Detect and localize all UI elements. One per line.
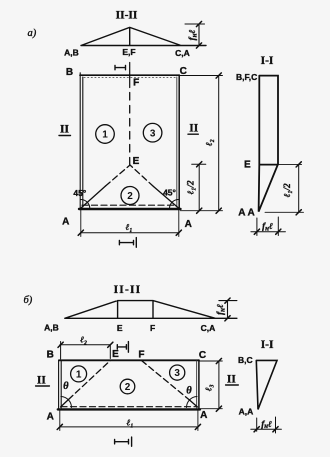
dimension f_n*l below section a [251, 217, 286, 236]
svg-text:A,A: A,A [239, 407, 254, 417]
svg-text:ℓ₂: ℓ₂ [204, 139, 214, 146]
axis mark (top, fig b) [117, 342, 128, 353]
region circle 1 (fig b) [71, 366, 87, 382]
svg-text:II: II [37, 374, 46, 386]
svg-text:A,B: A,B [44, 323, 59, 333]
svg-text:θ: θ [186, 385, 192, 396]
yield line E-A left: solid near corner then dashed [81, 186, 106, 208]
plate b: bottom edge [58, 408, 200, 410]
svg-text:E: E [112, 349, 119, 360]
plate a: top edge [80, 74, 179, 76]
region circle 1 [96, 125, 115, 144]
svg-text:F: F [150, 323, 155, 333]
svg-text:II-II: II-II [114, 284, 142, 296]
svg-text:E: E [133, 156, 140, 167]
dimension l2 (fig a right) [218, 76, 220, 211]
svg-text:B,C: B,C [238, 355, 253, 365]
svg-text:II: II [227, 373, 236, 385]
plate b: bottom edge dashed inner line [61, 406, 197, 408]
region circle 3 (fig b) [170, 365, 185, 380]
axis centerline (fig a) solid top [129, 63, 131, 88]
svg-text:а): а) [28, 28, 37, 39]
svg-text:45°: 45° [73, 188, 86, 198]
svg-text:II: II [60, 124, 69, 136]
svg-text:2: 2 [127, 191, 133, 202]
axis mark (bottom, fig a) [119, 238, 136, 248]
svg-text:F: F [138, 349, 144, 360]
svg-text:A: A [185, 219, 192, 230]
svg-text:ℓ₁: ℓ₁ [127, 418, 134, 428]
svg-text:1: 1 [102, 130, 108, 141]
svg-text:ℓ₁: ℓ₁ [126, 222, 133, 232]
svg-text:A,B: A,B [64, 48, 79, 58]
yield line E-A right: solid near corner then dashed [154, 187, 179, 209]
II-II deflection triangle (fig a) [81, 27, 206, 45]
svg-text:ℓ₁/2: ℓ₁/2 [282, 183, 292, 197]
svg-text:ℓ₃: ℓ₃ [204, 384, 214, 391]
dimension l1/2 (section a) [298, 164, 300, 212]
plate b: left edge (double) [59, 360, 62, 410]
svg-text:C: C [180, 66, 187, 77]
plate a: bottom edge [79, 208, 181, 210]
svg-text:C: C [199, 350, 206, 361]
axis mark (top) [115, 65, 126, 69]
dimension l1 (fig b bottom) [60, 426, 198, 428]
45 deg arc left corner [81, 199, 90, 208]
extension lines (fig b) [60, 361, 223, 431]
plate a: right edge (double) [176, 77, 178, 207]
plate a: top edge dotted inner line [84, 77, 176, 79]
svg-text:F: F [133, 78, 139, 89]
svg-text:I-I: I-I [261, 339, 274, 351]
region circle 2 (fig b) [120, 379, 135, 394]
svg-text:B,F,C: B,F,C [236, 72, 257, 82]
svg-text:3: 3 [174, 368, 180, 379]
svg-text:A: A [62, 217, 69, 228]
svg-text:C,A: C,A [175, 48, 190, 58]
axis mark (bottom, fig b) [115, 437, 132, 446]
axis centerline dashed to E [129, 93, 131, 165]
svg-text:II-II: II-II [116, 10, 138, 22]
svg-text:3: 3 [150, 128, 156, 139]
theta arc left (fig b) [61, 397, 72, 408]
region circle 3 [143, 123, 162, 142]
dimension l3 (fig b right) [218, 361, 220, 409]
svg-text:I-I: I-I [261, 55, 274, 67]
extension lines (fig a) [81, 76, 223, 237]
45 deg arc right corner [169, 199, 178, 208]
svg-text:ℓ₂: ℓ₂ [80, 334, 87, 344]
svg-text:θ: θ [63, 381, 69, 392]
svg-text:1: 1 [76, 369, 82, 380]
plate b: right edge (double) [196, 361, 198, 408]
svg-text:б): б) [24, 295, 33, 306]
I-I deflection triangle (fig b) [256, 360, 277, 409]
dimension f_n*l (section b) [251, 417, 282, 433]
yield line F-A (fig b): dashed then solid near corner [142, 361, 190, 401]
region circle 2 [121, 187, 139, 205]
svg-text:A: A [47, 412, 54, 423]
svg-text:A A: A A [238, 208, 254, 219]
svg-text:2: 2 [125, 382, 131, 393]
I-I deflection profile (fig a) [259, 76, 278, 212]
II-II deflection trapezoid (fig b) [65, 301, 237, 319]
dimension l2 (fig b top) [60, 342, 111, 360]
svg-text:E: E [117, 323, 123, 333]
svg-text:B: B [66, 67, 73, 78]
dimension l1/2 (fig a right) [192, 164, 206, 211]
yield line A-E (fig b): solid near corner then dashed [61, 400, 69, 408]
dimension f_n*l (triangle right) [185, 21, 205, 48]
svg-text:E,F: E,F [122, 47, 135, 57]
plate a: left edge (double) [80, 73, 83, 210]
plate b: top edge [59, 359, 199, 361]
dimension f_n*l (trapezoid right) [219, 301, 237, 319]
extension at E level and bottom (section a) [265, 164, 304, 212]
dimension l1 (fig a bottom) [81, 232, 179, 234]
svg-text:45°: 45° [163, 188, 176, 198]
svg-text:A: A [200, 410, 207, 421]
plate a: bottom edge dashed inner line [82, 204, 177, 206]
svg-text:ℓ₁/2: ℓ₁/2 [186, 180, 196, 194]
svg-text:C,A: C,A [201, 323, 216, 333]
theta arc right (fig b) [186, 397, 197, 408]
svg-text:E: E [244, 160, 251, 171]
svg-text:II: II [189, 123, 198, 135]
svg-text:B: B [47, 349, 54, 360]
